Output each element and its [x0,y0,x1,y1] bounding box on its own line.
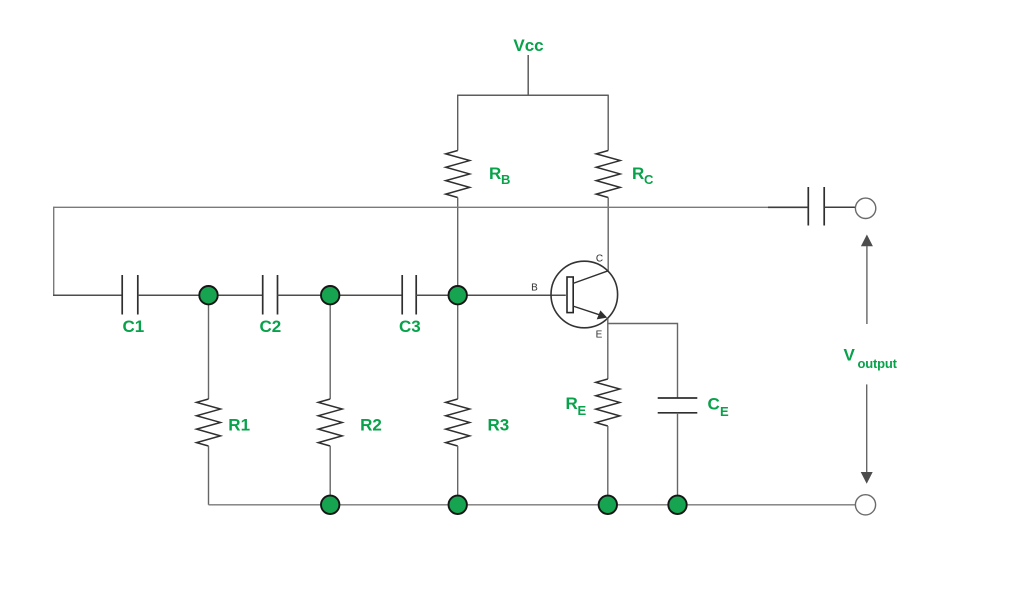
node junction dot 3 (base node) [449,286,467,304]
resistor RB [446,151,470,198]
arrow up shaft [866,246,868,324]
svg-text:R2: R2 [360,415,382,434]
node junction dot 1 [199,286,217,304]
wire bottom rail [209,504,856,506]
svg-text:V: V [844,346,856,365]
wire long feedback rail [54,206,809,208]
wire left to C1 [53,294,122,296]
terminal top output [855,198,875,218]
svg-text:Vcc: Vcc [513,36,543,55]
wire left drop [53,207,55,296]
arrow up head [861,235,873,247]
transistor emitter stroke [573,306,600,315]
wire node2 to C3 [330,294,402,296]
arrow down head [861,472,873,484]
svg-text:output: output [858,356,898,371]
svg-text:C: C [644,172,654,187]
wire Vcc lead [527,55,529,95]
capacitor CE [658,397,698,399]
wire right drop to RC [607,95,609,151]
svg-text:C1: C1 [123,317,145,336]
node junction dot RE bottom [599,496,617,514]
capacitor C3 [401,275,403,315]
wire C1 to node1 [138,294,209,296]
node junction dot R2 bottom [321,496,339,514]
wire base [458,294,566,296]
transistor base bar [567,277,573,313]
resistor RC [596,151,620,198]
svg-text:B: B [501,172,510,187]
svg-text:C: C [596,254,603,265]
arrow down shaft [866,384,868,472]
svg-text:B: B [531,283,538,294]
wire R3 lower lead [457,446,459,505]
resistor R3 [446,399,470,446]
wire Cout to terminal [824,206,855,208]
svg-text:R: R [566,394,578,413]
wire CE lead down [677,413,679,505]
node junction dot CE bottom [668,496,686,514]
wire RB lead down to base node [457,198,459,296]
wire top rail [458,94,609,96]
wire R1 upper lead [208,295,210,399]
wire R2 upper lead [329,295,331,399]
transistor collector stroke [573,271,608,284]
wire emitter down [607,319,609,379]
wire C2 to node2 [278,294,331,296]
capacitor C2 [262,275,264,315]
wire C3 to node3 [416,294,458,296]
wire emitter to CE branch [608,324,678,399]
resistor R1 [197,399,221,446]
svg-text:E: E [578,403,587,418]
svg-text:R: R [489,164,501,183]
svg-text:C2: C2 [260,317,282,336]
svg-text:E: E [596,330,603,341]
wire node1 to C2 [209,294,263,296]
node junction dot 2 [321,286,339,304]
capacitor C1 [121,275,123,315]
svg-text:C: C [708,395,720,414]
wire RE lead down [607,426,609,505]
svg-text:R: R [632,164,644,183]
svg-text:C3: C3 [399,317,421,336]
resistor R2 [318,399,342,446]
svg-text:E: E [720,404,729,419]
svg-text:R1: R1 [228,415,250,434]
wire R1 lower lead [208,446,210,505]
node junction dot R3 bottom [449,496,467,514]
wire RC lead down to collector [607,198,609,271]
resistor RE [596,379,620,426]
wire R3 upper lead [457,295,459,399]
capacitor Cout [807,187,809,226]
svg-text:R3: R3 [488,415,510,434]
terminal bottom output [855,495,875,515]
wire left drop to RB [457,95,459,151]
transistor emitter arrowhead [597,310,608,319]
wire R2 lower lead [329,446,331,505]
transistor Q1 circle [551,261,618,328]
